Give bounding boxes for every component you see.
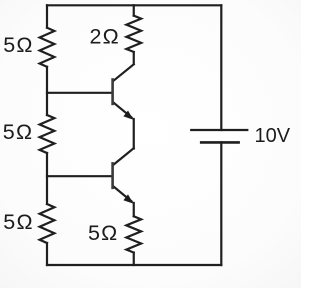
- svg-text:5Ω: 5Ω: [3, 33, 33, 57]
- svg-text:5Ω: 5Ω: [3, 120, 33, 144]
- svg-text:5Ω: 5Ω: [3, 210, 33, 234]
- svg-text:10V: 10V: [255, 125, 291, 147]
- svg-text:5Ω: 5Ω: [88, 221, 118, 245]
- svg-text:2Ω: 2Ω: [90, 25, 120, 49]
